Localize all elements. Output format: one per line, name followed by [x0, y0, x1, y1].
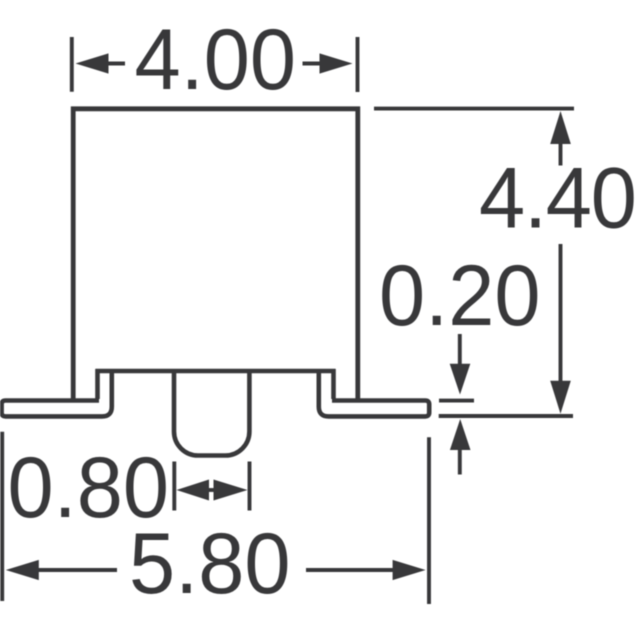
arrowhead 5.80 left	[6, 560, 39, 580]
dim tail 0.20 lower	[458, 448, 462, 475]
dim tail 4.40 top	[559, 142, 563, 166]
label 0.20	[379, 248, 541, 344]
extension line 0.80 left	[172, 462, 176, 511]
dim tail 5.80 right	[306, 568, 394, 572]
extension line 0.80 right	[248, 462, 252, 511]
label 4.40	[479, 150, 636, 246]
extension line 0.20 short	[439, 399, 474, 403]
left step	[95, 369, 100, 399]
dim tail 5.80 left	[37, 568, 117, 572]
label 0.80	[8, 440, 170, 536]
svg-text:0.20: 0.20	[379, 248, 541, 344]
extension line 4.40 top	[374, 107, 574, 111]
extension line 4.00 right	[356, 37, 360, 92]
dim tail 4.00 right	[303, 62, 322, 66]
svg-text:4.40: 4.40	[479, 150, 636, 246]
arrowhead 0.80 right	[214, 480, 248, 501]
dim tail 4.00 left	[107, 62, 125, 66]
arrowhead 4.00 right	[320, 53, 353, 73]
arrowhead 0.20 up	[450, 419, 471, 450]
arrowhead 4.00 left	[76, 53, 109, 73]
center lead	[174, 369, 249, 456]
component body outline	[73, 109, 358, 402]
svg-text:4.00: 4.00	[135, 12, 297, 108]
dim tail 0.80 middle	[205, 488, 217, 492]
dim tail 4.40 bottom	[559, 244, 563, 383]
arrowhead 4.40 up	[550, 111, 571, 144]
extension line 5.80 left	[0, 432, 4, 601]
extension line 5.80 right	[427, 437, 431, 604]
extension line 4.40/0.20 bottom	[439, 414, 573, 418]
arrowhead 5.80 right	[393, 560, 426, 580]
arrowhead 4.40 down	[550, 381, 571, 414]
extension line 4.00 left	[70, 37, 74, 92]
svg-text:5.80: 5.80	[129, 516, 291, 612]
body bottom face	[96, 369, 336, 374]
left wing lead	[2, 371, 112, 416]
right step	[331, 369, 336, 399]
label 5.80	[129, 516, 291, 612]
arrowhead 0.80 left	[177, 480, 210, 501]
right wing lead	[319, 371, 429, 416]
label 4.00	[135, 12, 297, 108]
arrowhead 0.20 down	[450, 364, 471, 395]
dim tail 0.20 upper	[458, 334, 462, 366]
